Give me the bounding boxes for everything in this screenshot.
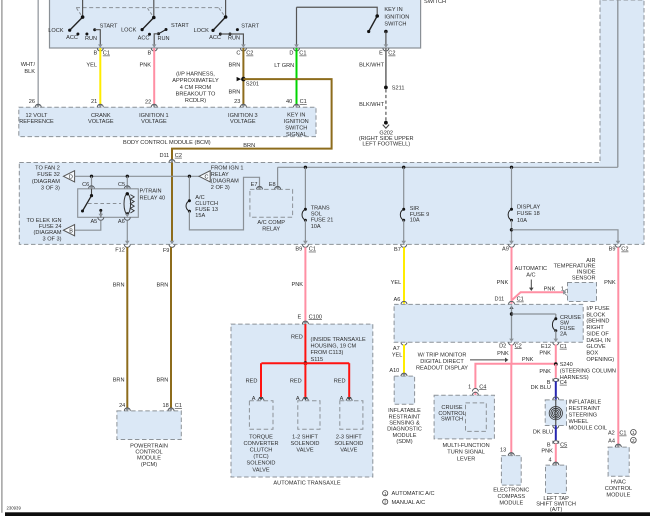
svg-text:ACC: ACC: [138, 35, 150, 41]
svg-text:VALVE: VALVE: [252, 467, 269, 473]
exit D2 C2: [509, 339, 514, 342]
red distribution bus: [261, 362, 349, 364]
svg-text:C6: C6: [82, 182, 89, 188]
svg-text:MANUAL A/C: MANUAL A/C: [392, 500, 426, 506]
svg-text:F9: F9: [163, 248, 170, 254]
svg-text:SWITCH: SWITCH: [285, 125, 307, 131]
section 2 output wire to B: [154, 34, 158, 45]
svg-text:PNK: PNK: [291, 282, 303, 288]
svg-text:CONVERTER: CONVERTER: [243, 441, 278, 447]
svg-text:KEY IN: KEY IN: [287, 112, 305, 118]
wire PNK junction to compass module: [510, 364, 512, 455]
svg-text:230939: 230939: [7, 506, 22, 511]
svg-text:PNK: PNK: [139, 62, 151, 68]
wire PNK to left tap shift switch: [555, 444, 557, 466]
svg-text:P/TRAIN: P/TRAIN: [140, 189, 162, 195]
1-2 shift solenoid valve box: [298, 401, 320, 429]
svg-text:A10: A10: [389, 368, 399, 374]
wire YEL A7 to SDM pin A10: [403, 345, 405, 376]
svg-text:18: 18: [162, 403, 168, 409]
svg-text:LOCK: LOCK: [48, 28, 64, 34]
svg-text:A: A: [252, 396, 256, 402]
svg-text:PNK: PNK: [539, 369, 551, 375]
air temperature inside sensor box: [568, 283, 597, 302]
wire BRN D11-C2 through fuse box to F9: [170, 160, 175, 163]
relay contact drop C6: [91, 176, 93, 186]
wire DK BLU coil to B C5: [553, 426, 559, 429]
svg-text:C2: C2: [175, 153, 182, 159]
svg-text:PNK: PNK: [539, 351, 551, 357]
svg-text:SWITCH: SWITCH: [384, 21, 406, 27]
svg-text:A6: A6: [118, 219, 125, 225]
legend circled 1 automatic A/C: [383, 491, 388, 496]
svg-text:TO FAN 2: TO FAN 2: [35, 166, 60, 172]
svg-text:(DIAGRAM: (DIAGRAM: [32, 179, 60, 185]
svg-text:SIDE OF: SIDE OF: [586, 331, 609, 337]
svg-text:RED: RED: [291, 335, 303, 341]
wire BRN ignition 3 voltage: [242, 48, 244, 104]
key-in ignition switch feed wire: [297, 7, 378, 16]
relay mechanical link dashed: [88, 203, 121, 205]
ignition switch section 1 lever: [70, 17, 83, 30]
svg-text:(INSIDE TRANSAXLE: (INSIDE TRANSAXLE: [311, 337, 366, 343]
fuse block feed wire from top right: [617, 0, 619, 167]
ignition switch section 1 feed wire: [82, 0, 84, 17]
wire PNK B9-C2 to HVAC control module: [617, 247, 619, 447]
svg-text:RCDLR): RCDLR): [185, 98, 206, 104]
exit E12 C1: [554, 339, 559, 342]
svg-text:LT GRN: LT GRN: [274, 63, 294, 69]
wire PNK A9 down to D11 C1: [511, 247, 513, 304]
display fuse 18 10A: [510, 208, 513, 211]
body control module (BCM) box: [19, 107, 316, 136]
wire through I/P fuse block: [401, 301, 407, 304]
section 3 output wire ACC-RUN to C C2: [220, 34, 243, 45]
svg-text:(PCM): (PCM): [141, 462, 157, 468]
ignition switch section 3 feed wire: [225, 0, 227, 17]
I/P fuse block box: [394, 304, 583, 342]
relay switch: [91, 189, 93, 196]
wire trans fuse to B9 C1 exit: [304, 220, 306, 241]
svg-text:(DIAGRAM: (DIAGRAM: [34, 230, 62, 236]
svg-text:STEERING: STEERING: [569, 413, 598, 419]
svg-text:BODY CONTROL MODULE (BCM): BODY CONTROL MODULE (BCM): [123, 140, 211, 146]
svg-text:E: E: [379, 51, 383, 57]
svg-text:RUN: RUN: [85, 36, 97, 42]
svg-text:VOLTAGE: VOLTAGE: [88, 119, 114, 125]
svg-text:FUSE 24: FUSE 24: [39, 224, 62, 230]
svg-text:E: E: [297, 314, 301, 320]
svg-text:(I/P HARNESS,: (I/P HARNESS,: [176, 72, 215, 78]
automatic transaxle box: [231, 324, 373, 477]
svg-text:C2: C2: [388, 51, 395, 57]
svg-text:22: 22: [145, 100, 151, 106]
inline connector B C5: [553, 441, 559, 444]
svg-text:26: 26: [29, 99, 35, 105]
svg-text:D11: D11: [159, 153, 169, 159]
svg-text:C1: C1: [517, 297, 524, 303]
wire BRN F12 to PCM 24: [126, 247, 128, 410]
svg-text:10A: 10A: [311, 224, 321, 230]
svg-text:24: 24: [119, 403, 125, 409]
svg-text:RED: RED: [334, 379, 346, 385]
svg-text:C4: C4: [479, 384, 486, 390]
svg-text:C1: C1: [300, 99, 307, 105]
trans sol fuse 21 drop: [304, 166, 307, 169]
svg-text:LEFT FOOTWELL): LEFT FOOTWELL): [362, 141, 410, 147]
svg-text:FUSE 18: FUSE 18: [517, 211, 540, 217]
wire BLK/WHT to S211: [385, 48, 387, 86]
display fuse 18 drop: [510, 166, 513, 169]
powertrain control module (PCM) box: [117, 411, 181, 440]
svg-text:2A: 2A: [560, 332, 567, 338]
svg-text:1-2 SHIFT: 1-2 SHIFT: [292, 434, 318, 440]
wire BRN F9 to PCM 18: [170, 247, 172, 410]
branch to cruise sw fuse: [512, 313, 556, 315]
svg-text:2-3 SHIFT: 2-3 SHIFT: [336, 434, 362, 440]
svg-text:TORQUE: TORQUE: [249, 434, 273, 440]
svg-text:APPROXIMATELY: APPROXIMATELY: [172, 78, 219, 84]
svg-text:(DIAGRAM: (DIAGRAM: [211, 179, 239, 185]
svg-text:HOUSING, 19 CM: HOUSING, 19 CM: [311, 344, 357, 350]
svg-text:FUSE 21: FUSE 21: [311, 218, 334, 224]
svg-text:MODULE: MODULE: [499, 500, 523, 506]
svg-text:WHEEL: WHEEL: [569, 419, 589, 425]
svg-text:BRN: BRN: [228, 62, 240, 68]
svg-text:13: 13: [500, 448, 506, 454]
svg-text:BRN: BRN: [228, 89, 240, 95]
svg-text:C2: C2: [515, 343, 522, 349]
svg-text:BLK/WHT: BLK/WHT: [359, 102, 384, 108]
svg-text:GLOVE: GLOVE: [586, 344, 606, 350]
cruise sw fuse 2A: [554, 317, 557, 320]
BCM pin entries: [36, 104, 41, 107]
wire PNK junction to cruise control switch: [475, 364, 511, 389]
svg-text:4 CM FROM: 4 CM FROM: [180, 85, 212, 91]
svg-text:A9: A9: [502, 247, 509, 253]
wire PNK junction to S240: [512, 363, 556, 365]
SIR fuse 9 10A: [402, 208, 405, 211]
svg-text:FROM C113): FROM C113): [311, 350, 344, 356]
svg-text:SENSOR: SENSOR: [572, 275, 596, 281]
svg-text:B7: B7: [394, 247, 401, 253]
svg-text:A6: A6: [394, 297, 401, 303]
svg-text:LOCK: LOCK: [194, 28, 210, 34]
relay terminal A5 to elek ign: [99, 214, 104, 217]
svg-text:PNK: PNK: [497, 280, 509, 286]
wire BLK/WHT S211 to ground dashed: [385, 89, 387, 120]
svg-text:B9: B9: [295, 247, 302, 253]
svg-text:2 OF 3): 2 OF 3): [211, 185, 230, 191]
ignition switch section 2 lever: [142, 18, 154, 30]
SIR fuse 9 drop: [402, 166, 405, 169]
svg-text:DIGITAL DIRECT: DIGITAL DIRECT: [420, 359, 464, 365]
section 1 output wire to B C1: [95, 30, 101, 45]
svg-text:SWITCH: SWITCH: [424, 0, 446, 5]
triangle B to elek ign fuse 24: [63, 225, 74, 236]
svg-text:C1: C1: [309, 247, 316, 253]
page left border: [1, 0, 3, 513]
svg-text:TURN SIGNAL: TURN SIGNAL: [447, 450, 485, 456]
svg-text:VALVE: VALVE: [340, 448, 357, 454]
svg-text:KEY IN: KEY IN: [384, 7, 402, 13]
svg-text:B: B: [547, 442, 551, 448]
svg-text:RUN: RUN: [157, 36, 169, 42]
svg-text:VOLTAGE: VOLTAGE: [230, 119, 256, 125]
inline connector B C4: [553, 379, 559, 382]
svg-text:MODULE COIL: MODULE COIL: [569, 425, 608, 431]
ignition 3 bus across fuse box: [278, 166, 618, 168]
branch wire to B9 C2 exit: [512, 230, 619, 242]
electronic compass module box: [501, 456, 521, 486]
svg-text:(BEHIND: (BEHIND: [586, 319, 609, 325]
svg-text:A4: A4: [608, 439, 615, 445]
svg-text:SOLENOID: SOLENOID: [334, 441, 363, 447]
ground G202: [384, 121, 388, 125]
P/TRAIN RELAY 40 box: [78, 189, 139, 218]
svg-text:(STEERING COLUMN: (STEERING COLUMN: [560, 369, 616, 375]
svg-text:B: B: [93, 51, 97, 57]
svg-text:WHT/: WHT/: [21, 62, 36, 68]
svg-text:21: 21: [91, 99, 97, 105]
svg-text:SWITCH: SWITCH: [441, 417, 463, 423]
svg-text:B9: B9: [609, 247, 616, 253]
left tap shift switch box: [546, 465, 567, 493]
wire YEL B7 to SDM: [403, 247, 405, 304]
svg-text:D2: D2: [499, 343, 506, 349]
underhood fuse block box: [19, 0, 644, 244]
svg-text:10A: 10A: [410, 218, 420, 224]
svg-text:INFLATABLE: INFLATABLE: [388, 408, 421, 414]
svg-text:RED: RED: [246, 379, 258, 385]
svg-text:BRN: BRN: [156, 378, 168, 384]
svg-text:TO ELEK IGN: TO ELEK IGN: [26, 218, 61, 224]
svg-text:LEVER: LEVER: [457, 456, 475, 462]
svg-text:AUTOMATIC A/C: AUTOMATIC A/C: [392, 491, 435, 497]
svg-text:YEL: YEL: [86, 62, 97, 68]
svg-text:S240: S240: [560, 362, 573, 368]
svg-text:S211: S211: [392, 86, 405, 92]
svg-text:MULTI-FUNCTION: MULTI-FUNCTION: [443, 443, 490, 449]
svg-text:3 OF 3): 3 OF 3): [41, 185, 60, 191]
svg-text:AUTOMATIC: AUTOMATIC: [515, 266, 547, 272]
svg-text:RESTRAINT: RESTRAINT: [389, 414, 421, 420]
svg-text:A/C COMP: A/C COMP: [257, 220, 285, 226]
ignition switch section 3 lever: [213, 17, 226, 30]
triangle C from IGN 1 relay: [199, 171, 210, 182]
wire PNK ignition 1 voltage: [153, 48, 155, 104]
svg-text:40: 40: [286, 99, 292, 105]
svg-text:C: C: [205, 174, 209, 180]
wire SIR fuse to B7 exit: [403, 220, 405, 241]
svg-text:D: D: [289, 51, 293, 57]
svg-text:SIGNAL: SIGNAL: [286, 132, 307, 138]
wire D C1 riser inside ignition switch box: [296, 7, 298, 44]
svg-text:ELECTRONIC: ELECTRONIC: [493, 487, 529, 493]
splice S211: [384, 86, 388, 90]
svg-text:C1: C1: [560, 344, 567, 350]
ignition switch gang dashed link: [76, 7, 222, 9]
svg-text:BRN: BRN: [113, 378, 125, 384]
wire PNK E12 to S240: [555, 345, 557, 365]
svg-text:AUTOMATIC TRANSAXLE: AUTOMATIC TRANSAXLE: [273, 480, 340, 486]
branch to air temperature sensor: [512, 292, 564, 300]
svg-text:YEL: YEL: [391, 280, 402, 286]
svg-text:A5: A5: [90, 219, 97, 225]
svg-text:SOL: SOL: [311, 212, 322, 218]
A/C COMP RELAY box: [250, 189, 293, 217]
svg-text:C2: C2: [621, 247, 628, 253]
svg-text:BRN: BRN: [156, 282, 168, 288]
splice S240: [554, 362, 558, 366]
svg-text:DASH, IN: DASH, IN: [586, 338, 610, 344]
svg-text:BRN: BRN: [243, 143, 255, 149]
svg-text:10A: 10A: [517, 218, 527, 224]
junction dots on relay feed bus: [90, 175, 93, 178]
svg-text:VALVE: VALVE: [296, 448, 313, 454]
wire display fuse to A9 exit: [511, 220, 513, 241]
svg-text:LOCK: LOCK: [121, 28, 137, 34]
svg-text:PNK: PNK: [604, 280, 616, 286]
svg-text:MODULE: MODULE: [393, 433, 417, 439]
svg-text:C5: C5: [118, 182, 125, 188]
svg-text:CONTROL: CONTROL: [135, 450, 162, 456]
wire PNK S240 to B C4: [555, 364, 557, 378]
TCC solenoid valve box: [249, 401, 273, 429]
svg-text:START: START: [100, 23, 118, 29]
svg-text:PNK: PNK: [497, 351, 509, 357]
svg-text:READOUT DISPLAY: READOUT DISPLAY: [416, 365, 468, 371]
svg-text:DK BLU: DK BLU: [531, 385, 551, 391]
svg-text:D: D: [69, 174, 73, 180]
svg-text:C: C: [236, 51, 240, 57]
svg-text:FUSE 32: FUSE 32: [37, 172, 60, 178]
wire A/C fuse to A/C comp relay E7: [189, 177, 259, 230]
HVAC control module box: [608, 447, 629, 476]
svg-text:RUN: RUN: [228, 36, 240, 42]
svg-text:S115: S115: [311, 357, 324, 363]
svg-text:1: 1: [561, 286, 564, 292]
svg-text:COMPASS: COMPASS: [498, 494, 526, 500]
wire RED to 1-2 shift solenoid: [304, 363, 306, 398]
svg-text:SOLENOID: SOLENOID: [247, 461, 276, 467]
svg-text:BLOCK: BLOCK: [586, 312, 605, 318]
splice S115: [304, 361, 308, 365]
svg-text:15A: 15A: [195, 213, 205, 219]
legend circled 2 manual A/C: [383, 499, 388, 504]
svg-text:E12: E12: [541, 344, 551, 350]
svg-text:E7: E7: [251, 182, 258, 188]
svg-text:POWERTRAIN: POWERTRAIN: [130, 443, 168, 449]
trans sol fuse 21 10A: [304, 208, 307, 211]
triangle D to fan 2 fuse 32: [63, 171, 74, 182]
svg-text:D11: D11: [494, 297, 504, 303]
wire E8 riser to ignition bus: [277, 167, 279, 186]
svg-text:DISPLAY: DISPLAY: [517, 204, 540, 210]
wire PNK D2 to junction: [511, 345, 513, 364]
svg-text:PNK: PNK: [544, 286, 556, 292]
svg-text:BLK: BLK: [24, 69, 35, 75]
wire LT GRN key-in signal: [296, 48, 298, 104]
cruise control switch inner box: [466, 403, 487, 432]
svg-text:START: START: [171, 23, 189, 29]
wire RED to 2-3 shift solenoid: [348, 363, 350, 398]
svg-text:CONTROL: CONTROL: [605, 486, 632, 492]
svg-text:C5: C5: [560, 442, 567, 448]
wire inside I/P fuse block: [511, 306, 513, 342]
svg-text:BLK/WHT: BLK/WHT: [359, 63, 384, 69]
bus wire from triangle D: [75, 175, 199, 177]
svg-text:C1: C1: [299, 51, 306, 57]
ignition switch section 2 feed wire: [153, 0, 155, 18]
2-3 shift solenoid valve box: [340, 401, 363, 429]
svg-text:HVAC: HVAC: [611, 479, 626, 485]
svg-text:B: B: [147, 51, 151, 57]
section 2 RUN-START link: [159, 30, 167, 34]
multi-function turn signal lever box: [434, 395, 494, 439]
svg-text:DK BLU: DK BLU: [533, 429, 553, 435]
svg-text:FROM IGN 1: FROM IGN 1: [211, 165, 244, 171]
key-in ignition switch lever: [369, 16, 378, 32]
section 3 contacts ACC RUN START: [219, 33, 222, 36]
svg-text:OPENING): OPENING): [586, 357, 614, 363]
svg-text:C100: C100: [309, 314, 322, 320]
svg-text:RELAY: RELAY: [211, 172, 229, 178]
svg-text:E8: E8: [269, 182, 276, 188]
svg-text:C2: C2: [246, 51, 253, 57]
relay coil drop C5: [126, 176, 128, 186]
inflatable restraint SDM box: [394, 376, 414, 404]
svg-text:RIGHT: RIGHT: [586, 325, 604, 331]
svg-text:A7: A7: [393, 346, 400, 352]
svg-text:ACC: ACC: [66, 35, 78, 41]
svg-text:S201: S201: [246, 82, 259, 88]
svg-text:VOLTAGE: VOLTAGE: [141, 119, 167, 125]
wire WHT/BLK 12 volt reference: [37, 0, 39, 104]
svg-text:RELAY: RELAY: [262, 227, 280, 233]
clockspring coil symbol: [555, 400, 557, 426]
svg-text:RESTRAINT: RESTRAINT: [569, 406, 601, 412]
ignition box pin exits: [98, 44, 103, 47]
bottom black bar: [5, 512, 650, 516]
svg-text:START: START: [241, 23, 259, 29]
svg-text:BOX: BOX: [586, 350, 598, 356]
inflatable restraint steering wheel module coil box: [545, 400, 566, 426]
svg-text:B: B: [69, 228, 73, 234]
svg-text:1: 1: [468, 384, 471, 390]
svg-text:I/P FUSE: I/P FUSE: [586, 306, 609, 312]
wire RED inside transaxle: [304, 324, 306, 363]
svg-text:A2: A2: [608, 431, 615, 437]
svg-text:BRN: BRN: [113, 282, 125, 288]
relay coil: [124, 194, 131, 214]
svg-text:MODULE: MODULE: [606, 493, 630, 499]
svg-text:RELAY 40: RELAY 40: [140, 195, 166, 201]
svg-text:23: 23: [234, 99, 240, 105]
section 1 contacts ACC RUN START: [76, 33, 79, 36]
svg-text:INFLATABLE: INFLATABLE: [569, 400, 602, 406]
svg-text:IGNITION: IGNITION: [384, 14, 409, 20]
svg-text:PNK: PNK: [541, 448, 553, 454]
svg-text:YEL: YEL: [392, 353, 403, 359]
svg-text:RED: RED: [290, 379, 302, 385]
A/C clutch fuse 13 drop: [188, 175, 191, 178]
wire BRN S201 loop to D11 C2: [172, 79, 332, 161]
section 2 contacts ACC RUN START: [148, 33, 151, 36]
svg-text:3 OF 3): 3 OF 3): [43, 236, 62, 242]
wire DK BLU to SIR coil: [555, 381, 557, 400]
splice S201: [241, 77, 246, 82]
